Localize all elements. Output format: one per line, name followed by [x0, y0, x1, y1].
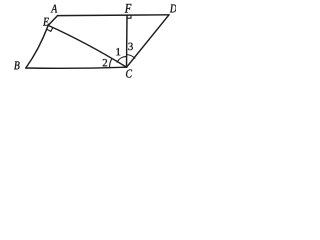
- angle label 3: [128, 43, 133, 50]
- angle 3 arc at C: [127, 55, 135, 59]
- segment EC (altitude from C to AB): [48, 25, 126, 67]
- label C: [126, 70, 132, 78]
- angle label 2: [103, 59, 107, 66]
- side AB (left edge, through E): [48, 16, 57, 26]
- side BC (bottom edge): [26, 67, 127, 68]
- label A: [51, 5, 57, 13]
- label B: [14, 61, 20, 69]
- side DC (right edge): [127, 15, 169, 67]
- label F: [125, 4, 132, 13]
- angle 1 arc at C: [117, 56, 127, 62]
- label D: [170, 5, 177, 13]
- angle 2 arc at C: [110, 59, 112, 67]
- segment FC (altitude from C to AD): [126, 15, 129, 67]
- side AB lower part (E to B): [26, 25, 48, 68]
- right-angle mark at F: [127, 15, 131, 18]
- angle label 1: [116, 48, 120, 55]
- right-angle mark at E: [47, 28, 53, 32]
- side AD (top edge of parallelogram): [58, 14, 170, 17]
- label E: [43, 18, 49, 26]
